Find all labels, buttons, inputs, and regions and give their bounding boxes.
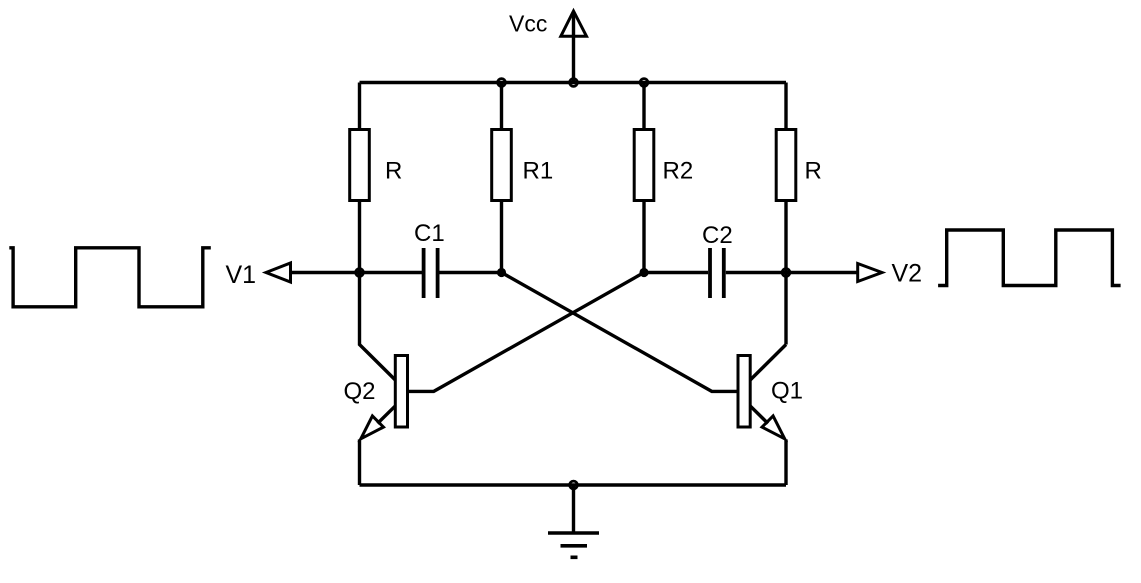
svg-text:Q2: Q2 xyxy=(344,378,376,405)
wire bottom rail xyxy=(360,483,787,486)
svg-text:R: R xyxy=(385,158,402,185)
wire Q1 emitter to bottom rail xyxy=(784,439,787,485)
wire Q2 emitter to bottom rail xyxy=(358,439,361,485)
resistor R1 xyxy=(492,130,512,201)
node filled dot under R2 xyxy=(639,268,648,277)
svg-text:Q1: Q1 xyxy=(771,378,803,405)
Q1 emitter arrow xyxy=(762,416,785,439)
svg-text:C2: C2 xyxy=(702,222,733,249)
output arrow V2 xyxy=(858,264,882,282)
svg-text:V2: V2 xyxy=(892,260,923,288)
wire resistor R1 bottom to node xyxy=(500,201,503,273)
transistor Q2 base bar xyxy=(395,356,407,428)
wire cross-coupling from node under R2 to Q2 base xyxy=(408,273,645,392)
svg-text:R2: R2 xyxy=(663,158,694,185)
wire Q1 collector xyxy=(750,345,786,381)
svg-text:R: R xyxy=(805,158,822,185)
wire resistor R bottom to node V1 xyxy=(358,201,361,273)
resistor R2 xyxy=(634,130,654,201)
wire node under R2 to capacitor C2 xyxy=(644,271,708,274)
wire C1 right plate to node under R1 xyxy=(440,271,502,274)
svg-text:C1: C1 xyxy=(414,220,445,247)
waveform V2 square wave xyxy=(938,230,1121,286)
wire V1 output line xyxy=(290,271,422,274)
svg-text:Vcc: Vcc xyxy=(509,11,547,37)
waveform V1 square wave xyxy=(9,248,211,307)
wire left vertical from top rail to resistor R xyxy=(358,83,361,130)
node junction ring top rail at Vcc xyxy=(570,79,578,87)
wire right vertical from top rail to resistor R xyxy=(784,83,787,130)
wire resistor R2 bottom to node xyxy=(642,201,645,273)
node junction ring top rail at R2 xyxy=(640,79,648,87)
wire top rail Vcc bus xyxy=(360,81,787,84)
Q2 emitter arrow xyxy=(361,416,384,439)
wire Q2 collector xyxy=(360,273,396,381)
resistor R (left) xyxy=(350,130,370,201)
wire Q1 emitter xyxy=(750,406,768,424)
resistor R (right) xyxy=(776,130,796,201)
wire Q2 emitter xyxy=(378,406,396,424)
transistor Q1 base bar xyxy=(738,356,750,428)
wire R2 vertical from top rail to resistor R2 xyxy=(642,83,645,130)
node junction ring top rail at R1 xyxy=(498,79,506,87)
node junction ring ground xyxy=(570,481,578,489)
wire C2 right plate to V2 arrow xyxy=(726,271,858,274)
node junction ring V1 xyxy=(356,269,364,277)
svg-text:V1: V1 xyxy=(226,261,257,289)
capacitor C1 xyxy=(424,248,438,298)
svg-text:R1: R1 xyxy=(523,158,554,185)
wire ground stem xyxy=(572,485,575,533)
wire resistor R right bottom through node V2 down to Q1 collector xyxy=(784,201,787,345)
wire cross-coupling from node under R1 to Q1 base xyxy=(502,273,739,392)
node junction ring V2 xyxy=(782,269,790,277)
Vcc supply arrow xyxy=(561,11,587,83)
output arrow V1 xyxy=(266,263,291,282)
ground xyxy=(548,533,599,557)
capacitor C2 xyxy=(710,248,724,298)
wire R1 vertical from top rail to resistor R1 xyxy=(500,83,503,130)
node filled dot under R1 xyxy=(497,268,506,277)
